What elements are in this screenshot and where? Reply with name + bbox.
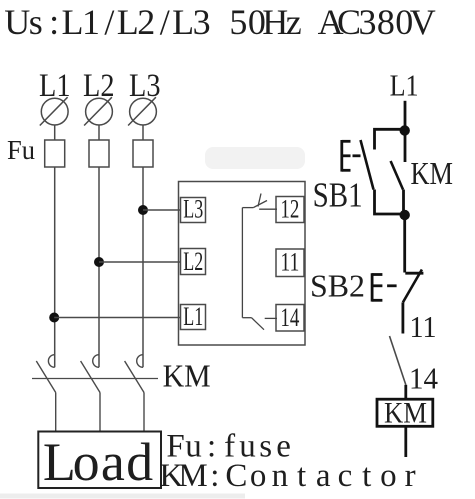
relay internal common wire <box>241 208 243 318</box>
svg-text:L2: L2 <box>183 246 203 276</box>
svg-text:L1: L1 <box>390 68 419 103</box>
junction node L1 <box>49 313 59 323</box>
contact KM auxiliary blade <box>391 161 403 190</box>
relay internal contact to 14 <box>242 318 277 330</box>
svg-text:Fu: Fu <box>7 135 35 165</box>
svg-text:KM: KM <box>163 358 211 394</box>
relay terminal box 12 <box>276 194 304 224</box>
svg-text:KM: KM <box>384 397 427 430</box>
faint bottom band <box>0 494 245 499</box>
load box <box>38 432 161 489</box>
svg-text:KM: KM <box>411 156 454 191</box>
svg-text:14: 14 <box>280 302 299 332</box>
relay terminal box 14 <box>276 302 304 332</box>
terminal circle L1 <box>40 97 68 125</box>
svg-text:11: 11 <box>280 247 299 277</box>
pushbutton SB1 actuator E <box>342 140 361 172</box>
wire 14 to coil <box>404 385 407 399</box>
relay contact 11-14 blade <box>390 336 406 385</box>
relay U1 box <box>179 182 306 346</box>
wire L1 vertical <box>54 167 56 367</box>
wire coil bottom <box>404 426 407 457</box>
svg-text:L3: L3 <box>183 194 203 224</box>
svg-text:14: 14 <box>409 360 438 395</box>
wire dot2 to SB2 <box>403 215 406 273</box>
wire L2 to relay <box>99 261 181 263</box>
fuse Fu pole L1 <box>45 140 65 167</box>
relay terminal box L1 <box>181 301 206 331</box>
fuse Fu pole L3 <box>133 140 153 167</box>
relay terminal box L2 <box>181 246 206 276</box>
svg-text:SB2: SB2 <box>310 268 365 304</box>
pushbutton SB2 stop bar <box>405 272 423 275</box>
relay terminal box 11 <box>276 247 304 277</box>
contactor linkage line <box>32 378 158 380</box>
coil KM box <box>377 399 433 426</box>
svg-text:SB1: SB1 <box>313 176 363 215</box>
contactor KM main contact pole 1 <box>36 355 55 432</box>
relay terminal box L3 <box>181 194 206 224</box>
contactor KM main contact pole 2 <box>81 355 100 432</box>
wire KM aux bottom <box>402 190 405 215</box>
wire L2 vertical <box>98 167 100 367</box>
faint watermark smudge <box>205 147 305 169</box>
junction node L3 <box>138 205 148 215</box>
wire L3 vertical <box>142 167 144 367</box>
svg-text:12: 12 <box>280 194 299 224</box>
contactor KM main contact pole 3 <box>125 355 144 432</box>
pushbutton SB1 contact blade <box>361 140 374 190</box>
wire SB1 branch top <box>375 129 406 149</box>
pushbutton SB2 contact blade <box>403 270 422 303</box>
svg-text:11: 11 <box>410 309 437 344</box>
wire L1 circle to fuse <box>54 125 56 140</box>
fuse Fu pole L2 <box>89 140 109 167</box>
junction node control bottom <box>400 210 410 220</box>
wire L1 to relay <box>54 317 180 319</box>
junction node control top <box>400 125 410 135</box>
wire control main down <box>404 101 407 162</box>
terminal circle L3 <box>128 97 156 125</box>
wire L3 to relay <box>143 209 181 211</box>
relay internal contact to 12 <box>242 194 277 210</box>
svg-text:Load: Load <box>43 432 153 492</box>
wire SB2 to terminal 11 <box>401 302 404 333</box>
wire L3 circle to fuse <box>142 125 144 140</box>
svg-text:L1: L1 <box>183 301 203 331</box>
junction node L2 <box>94 257 104 267</box>
wire L2 circle to fuse <box>98 125 100 140</box>
terminal circle L2 <box>84 97 112 125</box>
pushbutton SB2 actuator E <box>372 273 397 301</box>
wire SB1 branch bottom <box>375 190 406 215</box>
